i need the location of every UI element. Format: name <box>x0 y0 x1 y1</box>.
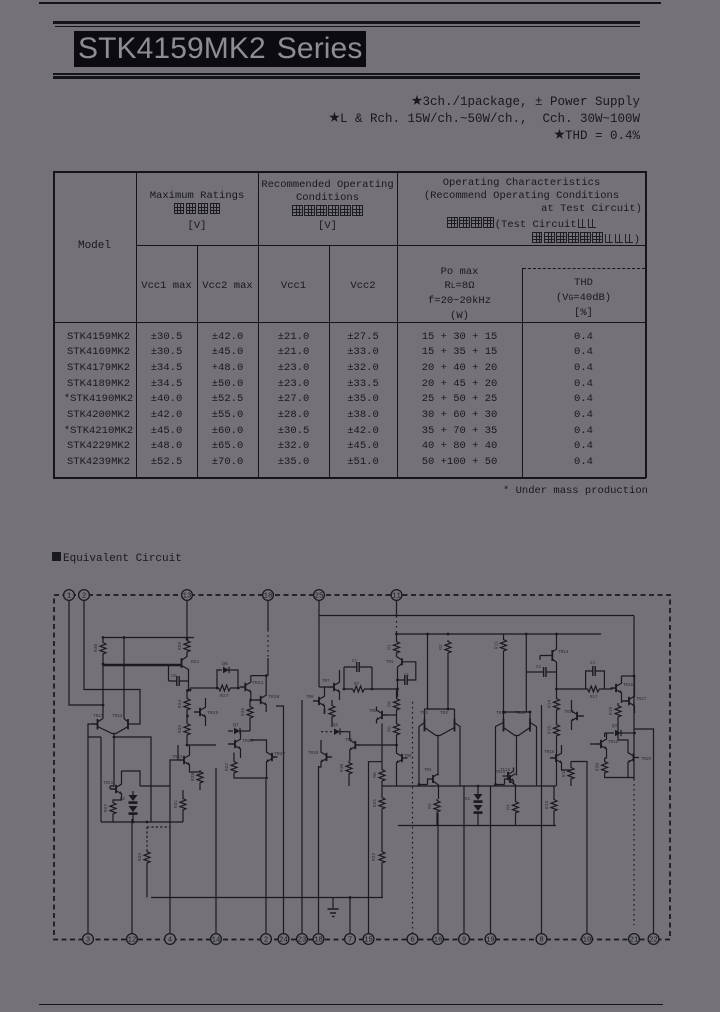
wire <box>525 634 527 712</box>
wire <box>319 615 634 617</box>
resistor R27 <box>190 685 240 699</box>
transistor TR27 <box>250 740 286 778</box>
transistor TR4 <box>419 769 439 799</box>
bias varistor D2 <box>120 791 138 819</box>
transistor TR8 <box>306 687 325 714</box>
svg-text:2: 2 <box>264 937 268 945</box>
pin 19 <box>485 934 496 945</box>
pin 2 <box>79 590 90 601</box>
svg-text:4: 4 <box>168 937 172 945</box>
svg-text:R22: R22 <box>371 853 377 862</box>
svg-text:18: 18 <box>264 593 273 601</box>
svg-text:TR14: TR14 <box>558 650 569 655</box>
svg-text:R32: R32 <box>137 853 143 862</box>
wire <box>571 762 587 934</box>
svg-text:10: 10 <box>583 937 592 945</box>
svg-text:TR2: TR2 <box>420 711 428 716</box>
svg-text:R13: R13 <box>544 801 550 810</box>
svg-text:14: 14 <box>212 937 221 945</box>
svg-text:Q2: Q2 <box>333 724 339 728</box>
Maximum Ratings header <box>136 189 258 233</box>
svg-text:R24: R24 <box>191 660 199 665</box>
capacitor C3 <box>526 656 556 678</box>
resistor R7 <box>344 667 397 692</box>
diode Q3 <box>605 725 635 736</box>
data rows <box>57 330 140 471</box>
wire <box>369 762 383 934</box>
pin 11 <box>391 590 402 601</box>
svg-text:C3: C3 <box>536 666 542 670</box>
svg-text:R37: R37 <box>224 763 230 772</box>
svg-text:15: 15 <box>364 937 373 945</box>
svg-text:TR6: TR6 <box>404 755 412 759</box>
wire <box>437 813 439 934</box>
wire feedback <box>114 737 151 822</box>
TR11/12 emitter join <box>504 728 531 736</box>
resistor R11 <box>494 634 507 652</box>
wire <box>151 897 383 899</box>
svg-text:13: 13 <box>183 593 192 601</box>
wire <box>140 760 178 934</box>
transistor TR21 <box>92 714 104 729</box>
svg-text:C5: C5 <box>171 673 177 679</box>
svg-text:C4: C4 <box>590 662 596 666</box>
svg-text:R34: R34 <box>177 700 183 709</box>
svg-text:R9: R9 <box>322 708 328 714</box>
svg-text:22: 22 <box>649 937 658 945</box>
pin 25 <box>314 590 325 601</box>
wire <box>504 711 531 713</box>
resistor R13 <box>544 786 557 826</box>
pin 24 <box>278 934 289 945</box>
svg-text:TR18: TR18 <box>544 751 555 755</box>
svg-text:R27: R27 <box>103 804 109 813</box>
transistor TR22 <box>112 636 134 729</box>
svg-text:25: 25 <box>315 593 324 601</box>
transistor TR25 <box>194 698 219 726</box>
svg-text:R15: R15 <box>547 726 553 735</box>
svg-text:R4: R4 <box>506 804 512 810</box>
pin 3 <box>83 934 94 945</box>
title block <box>74 31 366 67</box>
wire <box>267 601 269 631</box>
svg-text:8: 8 <box>539 937 543 945</box>
svg-text:TR25: TR25 <box>207 710 219 716</box>
svg-text:TR1: TR1 <box>386 661 394 665</box>
svg-text:R30: R30 <box>93 644 99 653</box>
resistor R14 <box>547 689 560 723</box>
wire <box>122 771 141 786</box>
svg-text:TR8: TR8 <box>306 696 314 700</box>
wire <box>251 675 268 677</box>
svg-text:R35: R35 <box>177 725 183 734</box>
wire <box>503 652 505 712</box>
svg-text:R1: R1 <box>387 644 393 650</box>
transistor TR14 <box>540 634 569 689</box>
pin 21 <box>629 934 640 945</box>
svg-text:TR19: TR19 <box>608 741 619 745</box>
svg-text:18: 18 <box>314 937 323 945</box>
svg-text:C1: C1 <box>404 674 410 678</box>
transistor TR23b <box>172 745 200 772</box>
svg-text:21: 21 <box>630 937 639 945</box>
diode Q6 <box>217 661 238 688</box>
transistor TR13c <box>496 769 516 800</box>
resistor R16 <box>561 762 574 787</box>
transistor TR9 <box>344 732 397 761</box>
svg-text:9: 9 <box>462 937 466 945</box>
transistor TR13 <box>495 768 514 785</box>
svg-text:TR28: TR28 <box>268 694 280 700</box>
wire <box>396 616 398 634</box>
wire <box>396 601 398 617</box>
svg-text:TR10: TR10 <box>308 752 319 756</box>
resistor R21 <box>372 796 385 850</box>
pin 7 <box>345 934 356 945</box>
pin 18 <box>313 934 324 945</box>
svg-text:R29: R29 <box>177 642 183 651</box>
svg-text:R14: R14 <box>547 700 553 709</box>
wire <box>398 825 556 827</box>
svg-text:TR23: TR23 <box>103 782 114 786</box>
svg-text:16: 16 <box>434 937 443 945</box>
svg-text:R8: R8 <box>387 701 393 707</box>
ground <box>328 898 339 917</box>
wire <box>425 708 455 710</box>
transistor TR24 <box>182 653 200 692</box>
pin 22 <box>648 934 659 945</box>
resistor R17 <box>557 686 613 700</box>
pin 18 <box>263 590 274 601</box>
resistor R20 <box>595 758 635 778</box>
transistor TR23 <box>103 771 122 800</box>
svg-text:TR20: TR20 <box>641 758 652 762</box>
svg-text:R21: R21 <box>372 799 378 808</box>
transistor TR12 <box>515 711 537 786</box>
transistor TR18 <box>544 745 571 770</box>
svg-text:R20: R20 <box>595 763 601 772</box>
wire <box>103 637 194 639</box>
svg-text:TR23: TR23 <box>172 756 183 760</box>
resistor R31 <box>173 790 186 822</box>
svg-text:1: 1 <box>67 593 71 601</box>
svg-text:R17: R17 <box>590 696 598 700</box>
wire <box>397 633 602 635</box>
wire <box>633 779 635 925</box>
svg-text:TR27: TR27 <box>274 751 286 757</box>
wire <box>412 700 414 934</box>
wire <box>267 630 269 658</box>
svg-text:R5: R5 <box>387 726 393 732</box>
diode Q7 <box>228 722 250 734</box>
svg-text:TR3: TR3 <box>440 711 448 716</box>
svg-text:TR5: TR5 <box>369 710 377 714</box>
svg-text:R36: R36 <box>240 708 246 717</box>
wire <box>490 786 492 934</box>
THD dashed top <box>523 268 645 269</box>
svg-text:D1: D1 <box>465 798 471 802</box>
resistor R15 <box>547 723 560 786</box>
capacitor C7 <box>344 660 372 672</box>
svg-text:R2: R2 <box>438 644 444 650</box>
wire <box>633 616 635 780</box>
pin 8 <box>536 934 547 945</box>
subheaders <box>136 280 197 292</box>
wire <box>267 658 269 676</box>
transistor TR1 <box>386 657 402 698</box>
wire <box>463 786 465 934</box>
wire <box>88 724 98 934</box>
pin 14 <box>211 934 222 945</box>
circuit boundary dashed box <box>54 595 670 940</box>
pin 23 <box>297 934 308 945</box>
transistor TR3 <box>440 709 460 786</box>
svg-text:C7: C7 <box>352 660 358 664</box>
transistor TR5 <box>369 707 397 724</box>
svg-text:TR26: TR26 <box>242 738 254 744</box>
resistor R2 <box>438 640 451 709</box>
resistor R5 <box>387 722 400 745</box>
wire <box>622 675 635 677</box>
TR21/22 emitter join <box>98 727 129 734</box>
transistor TR26 <box>228 731 254 758</box>
svg-text:TR22: TR22 <box>112 714 123 719</box>
wire VBE mult <box>110 737 114 789</box>
svg-text:11: 11 <box>392 593 401 601</box>
transistor TR10 <box>308 740 332 767</box>
pin 4 <box>165 934 176 945</box>
transistor TR7 <box>319 670 340 700</box>
resistor R27b <box>103 798 122 823</box>
svg-text:TR7: TR7 <box>322 680 330 684</box>
svg-text:TR9: TR9 <box>345 739 353 743</box>
wire <box>131 819 133 934</box>
svg-text:R31: R31 <box>173 800 179 809</box>
svg-text:TR13: TR13 <box>495 771 506 775</box>
svg-text:Q7: Q7 <box>233 722 239 728</box>
features <box>80 94 640 145</box>
bottom page rule <box>39 1004 663 1006</box>
wire <box>276 706 284 934</box>
svg-text:TR31: TR31 <box>252 680 264 686</box>
top rule 3 thin <box>55 26 640 27</box>
wire <box>101 821 183 823</box>
TR2/3 emitter join <box>425 728 455 736</box>
svg-text:TR17: TR17 <box>636 698 647 702</box>
wire <box>349 898 351 934</box>
rule under title thick <box>53 76 640 79</box>
svg-text:3: 3 <box>86 937 90 945</box>
capacitor C1 <box>398 662 416 685</box>
svg-text:TR21: TR21 <box>93 714 104 719</box>
wire <box>382 785 556 787</box>
svg-text:2: 2 <box>82 593 86 601</box>
resistor R37 <box>224 753 268 779</box>
wire <box>69 601 103 706</box>
resistor R34 <box>177 691 190 716</box>
wire <box>186 601 188 640</box>
under mass production <box>503 485 648 497</box>
top rule 2 thick <box>53 21 640 25</box>
svg-text:7: 7 <box>348 937 352 945</box>
svg-text:19: 19 <box>486 937 495 945</box>
resistor R4 <box>506 800 519 826</box>
wire <box>427 634 429 709</box>
resistor R1 <box>387 634 400 657</box>
wire <box>635 729 654 934</box>
pin 10 <box>582 934 593 945</box>
resistor R3 <box>427 799 440 826</box>
svg-text:R10: R10 <box>339 764 345 773</box>
resistor R28 <box>190 770 203 790</box>
capacitor C5 <box>169 665 189 686</box>
wire <box>318 601 320 688</box>
svg-text:Q6: Q6 <box>222 661 228 667</box>
Operating Characteristics header <box>397 177 646 248</box>
svg-text:24: 24 <box>279 937 288 945</box>
svg-text:12: 12 <box>128 937 137 945</box>
capacitor C4 <box>586 662 605 689</box>
resistor R10 <box>339 761 352 786</box>
svg-text:R27: R27 <box>220 693 229 699</box>
wire <box>88 737 101 822</box>
transistor TR20 <box>618 740 652 778</box>
transistor TR11 <box>496 711 507 785</box>
wire <box>132 819 134 822</box>
svg-text:TR16: TR16 <box>623 684 634 688</box>
transistor TR2 <box>419 709 428 785</box>
svg-text:Q3: Q3 <box>612 725 618 729</box>
pin 16 <box>433 934 444 945</box>
resistor R22 <box>371 850 385 898</box>
svg-text:TR15: TR15 <box>564 711 575 715</box>
pin 13 <box>182 590 193 601</box>
wire <box>541 705 543 934</box>
wire <box>301 700 303 934</box>
svg-text:R16: R16 <box>561 769 567 778</box>
borders <box>53 171 646 173</box>
transistor TR31 <box>240 676 264 700</box>
Recommended header <box>258 179 397 234</box>
transistor TR6 <box>397 745 413 786</box>
wire <box>266 778 268 934</box>
svg-text:23: 23 <box>298 937 307 945</box>
pin 6 <box>407 934 418 945</box>
wire <box>215 768 217 934</box>
pin 9 <box>459 934 470 945</box>
transistor TR17 <box>622 676 647 713</box>
transistor TR19 <box>590 733 619 758</box>
resistor R30 <box>93 638 106 719</box>
svg-text:6: 6 <box>410 937 414 945</box>
pin 15 <box>363 934 374 945</box>
transistor TR15 <box>564 700 584 730</box>
svg-text:R11: R11 <box>494 641 500 650</box>
transistor TR16 <box>611 676 634 703</box>
svg-text:R7: R7 <box>354 683 360 687</box>
svg-text:R28: R28 <box>190 773 196 782</box>
resistor R8 <box>387 690 400 722</box>
wire <box>318 766 320 934</box>
resistor R6 <box>372 724 385 797</box>
svg-text:R19: R19 <box>608 707 614 716</box>
Equivalent Circuit heading <box>52 552 182 565</box>
transistor TR28 <box>251 676 280 712</box>
Model <box>53 240 136 252</box>
varistor D1 <box>465 786 483 826</box>
rule under title thin <box>53 73 640 75</box>
resistor R32 <box>137 827 170 898</box>
svg-text:R3: R3 <box>427 803 433 809</box>
pin 2 <box>261 934 272 945</box>
wire <box>84 601 140 725</box>
top rule 1 <box>39 2 661 4</box>
pin 1 <box>64 590 75 601</box>
resistor R9 <box>322 700 335 727</box>
resistor R35 <box>177 716 216 745</box>
svg-text:TR4: TR4 <box>424 769 432 773</box>
wire TR24 base <box>103 664 182 666</box>
resistor R19 <box>608 703 621 740</box>
resistor R36 <box>240 700 253 731</box>
wire <box>177 745 179 760</box>
resistor R29 <box>177 639 190 657</box>
pin 12 <box>127 934 138 945</box>
svg-text:R6: R6 <box>372 772 378 778</box>
diode Q2 <box>321 724 344 735</box>
